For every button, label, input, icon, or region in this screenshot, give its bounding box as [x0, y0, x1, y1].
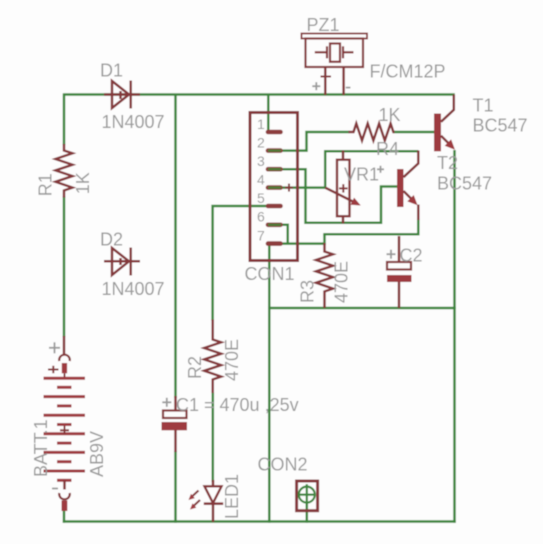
gray minus buzzer — [346, 87, 351, 89]
svg-text:CON2: CON2 — [258, 455, 308, 475]
battery mid cross — [64, 426, 66, 434]
svg-text:BATT.1: BATT.1 — [31, 419, 51, 477]
wire D-rail vertical x175 — [174, 94, 177, 399]
diode D1 — [104, 81, 140, 109]
capacitor C2 — [387, 236, 412, 308]
wire right rail x454 — [453, 150, 456, 523]
pin 5 — [268, 204, 281, 209]
wire R3 top riser — [323, 234, 326, 245]
resistor R1 — [56, 144, 73, 198]
svg-text:R3: R3 — [298, 280, 318, 303]
svg-text:R4: R4 — [376, 139, 399, 159]
gray plus VR1 — [377, 166, 384, 173]
wire left rail upper — [63, 94, 66, 146]
svg-text:470E: 470E — [222, 339, 242, 381]
pin 7 — [268, 241, 281, 246]
wire VR1 left vertical — [324, 151, 327, 189]
svg-text:2: 2 — [257, 135, 265, 151]
wire CON2 drop — [306, 503, 309, 523]
wire R4 to T1 base — [394, 131, 435, 134]
wire pin4 — [268, 186, 325, 189]
svg-text:1N4007: 1N4007 — [102, 112, 165, 132]
svg-text:R1: R1 — [36, 173, 56, 196]
svg-text:AB9V: AB9V — [87, 431, 107, 477]
pin4 polarity cross — [285, 184, 293, 192]
wire pin7 drop to ground — [268, 244, 271, 523]
wire ground rail y308 — [268, 307, 456, 310]
wire pin5 to R2 — [213, 206, 268, 321]
battery plates — [44, 378, 86, 480]
svg-text:6: 6 — [257, 209, 265, 225]
svg-text:1N4007: 1N4007 — [102, 279, 165, 299]
diode D2 — [104, 248, 140, 276]
wire R2 to LED — [212, 393, 215, 483]
svg-text:3: 3 — [257, 153, 265, 169]
pin 6 — [268, 223, 281, 228]
svg-text:LED1: LED1 — [222, 474, 242, 519]
svg-text:C2: C2 — [400, 246, 423, 266]
gray plus C2 — [387, 250, 396, 259]
pin 1 — [268, 130, 281, 135]
pin 4 — [268, 185, 281, 190]
wire T2 emitter drop — [417, 219, 420, 235]
svg-text:T1: T1 — [473, 96, 494, 116]
wire battery bottom — [63, 511, 66, 523]
wire top of VR1 to T2 collector — [324, 150, 419, 153]
svg-text:VR1: VR1 — [344, 165, 379, 185]
gray minus battery — [52, 488, 58, 490]
svg-text:F/CM12P: F/CM12P — [370, 62, 446, 82]
battery BATT.1 — [44, 336, 86, 511]
svg-text:1K: 1K — [379, 105, 401, 125]
svg-text:R2: R2 — [185, 356, 205, 379]
svg-text:1: 1 — [257, 116, 265, 132]
battery bottom terminal — [63, 480, 66, 489]
wire pin2 to R4 — [268, 132, 350, 151]
wire C1 bottom — [174, 451, 177, 523]
buzzer PZ1 — [302, 34, 368, 96]
wire left rail lower — [63, 197, 66, 338]
potentiometer VR1 — [325, 151, 361, 224]
svg-text:PZ1: PZ1 — [307, 15, 340, 35]
resistor R3 — [316, 243, 333, 308]
wire bottom rail — [63, 520, 456, 523]
transistor T1 — [434, 95, 455, 152]
gray plus battery — [49, 342, 60, 353]
svg-text:D1: D1 — [100, 61, 123, 81]
resistor R4 1K — [349, 124, 395, 141]
svg-text:4: 4 — [257, 172, 265, 188]
wire overlays on pins — [268, 151, 281, 225]
wire top rail — [63, 93, 455, 96]
svg-text:1K: 1K — [73, 172, 93, 194]
svg-text:5: 5 — [257, 190, 265, 206]
transistor T2 — [397, 151, 418, 221]
svg-text:CON1: CON1 — [245, 264, 295, 284]
connector CON1 — [250, 113, 298, 261]
wire pin7 row — [280, 242, 325, 245]
svg-text:BC547: BC547 — [473, 116, 528, 136]
gray plus C1 — [162, 398, 171, 407]
wire riser to T2 base — [381, 187, 398, 225]
connector CON2 — [297, 481, 318, 511]
wire pin6 jog — [268, 225, 288, 244]
wire pin1 drop — [267, 94, 270, 133]
svg-text:7: 7 — [257, 228, 265, 244]
pin 3 — [268, 167, 281, 172]
svg-text:BC547: BC547 — [437, 174, 492, 194]
svg-text:C1 = 470u ,25v: C1 = 470u ,25v — [176, 395, 299, 415]
wire emitter rail y234 — [323, 233, 418, 236]
resistor R2 — [204, 320, 221, 394]
svg-text:T2: T2 — [437, 153, 458, 173]
svg-text:D2: D2 — [100, 230, 123, 250]
capacitor C1 — [162, 396, 188, 452]
pin 2 — [268, 148, 281, 153]
wire pin3 down and across — [268, 169, 381, 223]
battery top cross — [48, 369, 59, 371]
gray plus buzzer — [312, 82, 320, 90]
LED LED1 — [189, 480, 224, 522]
svg-text:470E: 470E — [332, 261, 352, 303]
